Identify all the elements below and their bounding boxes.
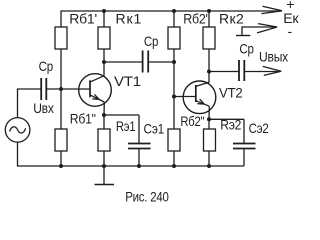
node dot base VT1 <box>59 87 63 91</box>
ground bar of minus lead <box>236 35 250 37</box>
wire Rk2 bottom / collector VT2 <box>208 49 210 83</box>
wire Ce2 top <box>243 119 245 143</box>
node dot rail D <box>172 164 176 168</box>
wire Ce2 bottom <box>243 149 245 166</box>
capacitor Ce2 plates <box>233 143 256 145</box>
node dot base VT2 <box>172 95 176 99</box>
svg-text:Rк2: Rк2 <box>219 11 244 27</box>
wire collector VT1 to Cp mid <box>104 61 142 63</box>
resistor Rb1'' <box>55 129 67 151</box>
wire Rk1 bottom / collector VT1 <box>103 49 105 76</box>
wire Rk2 top <box>208 11 210 27</box>
node dot rail Ce1 <box>137 164 141 168</box>
svg-text:VT1: VT1 <box>114 73 141 89</box>
output arrowhead <box>263 66 282 75</box>
wire input column top <box>18 89 41 118</box>
svg-text:Rк1: Rк1 <box>116 11 142 27</box>
wire bottom common rail <box>18 142 245 166</box>
capacitor Ce1 plates <box>128 143 151 145</box>
wire minus lead <box>242 27 275 35</box>
wire Re2 bottom <box>208 151 210 166</box>
wire Re2 top <box>208 119 210 129</box>
svg-text:+: + <box>286 0 294 12</box>
sine symbol inside source <box>10 127 26 133</box>
wire base VT2 <box>174 96 196 98</box>
transistor VT2 <box>183 81 216 114</box>
wire Rb2'' top <box>173 97 175 130</box>
svg-text:Ср: Ср <box>239 41 254 57</box>
svg-text:-: - <box>288 23 293 39</box>
node dot emitter VT2 <box>207 117 211 121</box>
svg-text:Uвых: Uвых <box>259 49 288 65</box>
node dot top rail Rk1 <box>102 9 106 13</box>
wire emitter VT1 down <box>103 102 105 115</box>
svg-text:Сэ2: Сэ2 <box>249 120 269 136</box>
node dot collector VT2 <box>207 70 211 74</box>
svg-text:Rб1': Rб1' <box>69 11 97 27</box>
node dot rail E <box>207 164 211 168</box>
VT2 emitter arrowhead <box>197 99 204 104</box>
svg-text:Рис. 240: Рис. 240 <box>125 189 169 205</box>
capacitor Cp mid plates <box>142 51 144 73</box>
wire top supply rail <box>61 10 282 12</box>
svg-text:Rэ2: Rэ2 <box>220 117 241 133</box>
VT1 emitter arrowhead <box>92 94 99 99</box>
node dot rail A <box>59 164 63 168</box>
svg-text:Uвх: Uвх <box>33 100 54 116</box>
wire Ce1 bottom <box>138 149 140 166</box>
node dot top rail Rb2' <box>172 9 176 13</box>
svg-text:Rб2': Rб2' <box>183 11 208 27</box>
wire collector VT2 to Cp out <box>209 71 238 73</box>
wire Rb2' bottom <box>173 49 175 97</box>
svg-text:Ср: Ср <box>39 58 54 74</box>
node dot collector VT1 <box>102 60 106 64</box>
svg-text:Rб2": Rб2" <box>180 113 204 129</box>
resistor Rb2'' <box>168 129 180 151</box>
node dot rail B <box>102 164 106 168</box>
ground <box>103 166 105 184</box>
supply + arrowhead <box>262 6 283 13</box>
wire emitter node to Ce2 <box>209 118 244 120</box>
resistor Rk1 <box>98 27 110 49</box>
generator G1 (input source) <box>5 118 30 143</box>
resistor Rk2 <box>203 27 215 49</box>
capacitor Cp input plates <box>40 78 42 100</box>
wire base VT1 <box>47 88 90 90</box>
capacitor Cp out plates <box>238 60 240 81</box>
svg-text:Ср: Ср <box>144 33 159 49</box>
resistor Re2 <box>204 129 216 151</box>
node dot top rail Rk2 <box>207 9 211 13</box>
wire Rb1' bottom <box>60 49 62 89</box>
wire divider column A top <box>60 11 62 27</box>
node dot emitter VT1 <box>102 113 106 117</box>
wire Re1 bottom <box>103 151 105 166</box>
wire divider column D top <box>173 11 175 27</box>
transistor VT1 <box>79 74 112 107</box>
wire emitter node to Ce1 <box>104 114 139 116</box>
wire Ce1 top <box>138 115 140 143</box>
resistor Re1 <box>98 129 110 151</box>
resistor Rb2' <box>168 27 180 49</box>
wire Rb1'' bottom <box>60 151 62 166</box>
wire Rb1'' top <box>60 89 62 129</box>
resistor Rb1' <box>55 27 67 49</box>
wire Rb2'' bottom <box>173 151 175 166</box>
svg-text:Rб1": Rб1" <box>70 110 96 126</box>
wire emitter VT2 down <box>208 106 210 119</box>
wire output lead <box>245 71 278 73</box>
wire Cp mid to divider column D <box>149 61 174 63</box>
svg-text:Rэ1: Rэ1 <box>116 118 136 134</box>
svg-text:Сэ1: Сэ1 <box>144 120 165 136</box>
wire Re1 top <box>103 115 105 129</box>
svg-text:VT2: VT2 <box>219 85 243 101</box>
wire Rk1 top <box>103 11 105 27</box>
node dot Cp mid right <box>172 60 176 64</box>
minus arrowhead <box>257 24 277 33</box>
